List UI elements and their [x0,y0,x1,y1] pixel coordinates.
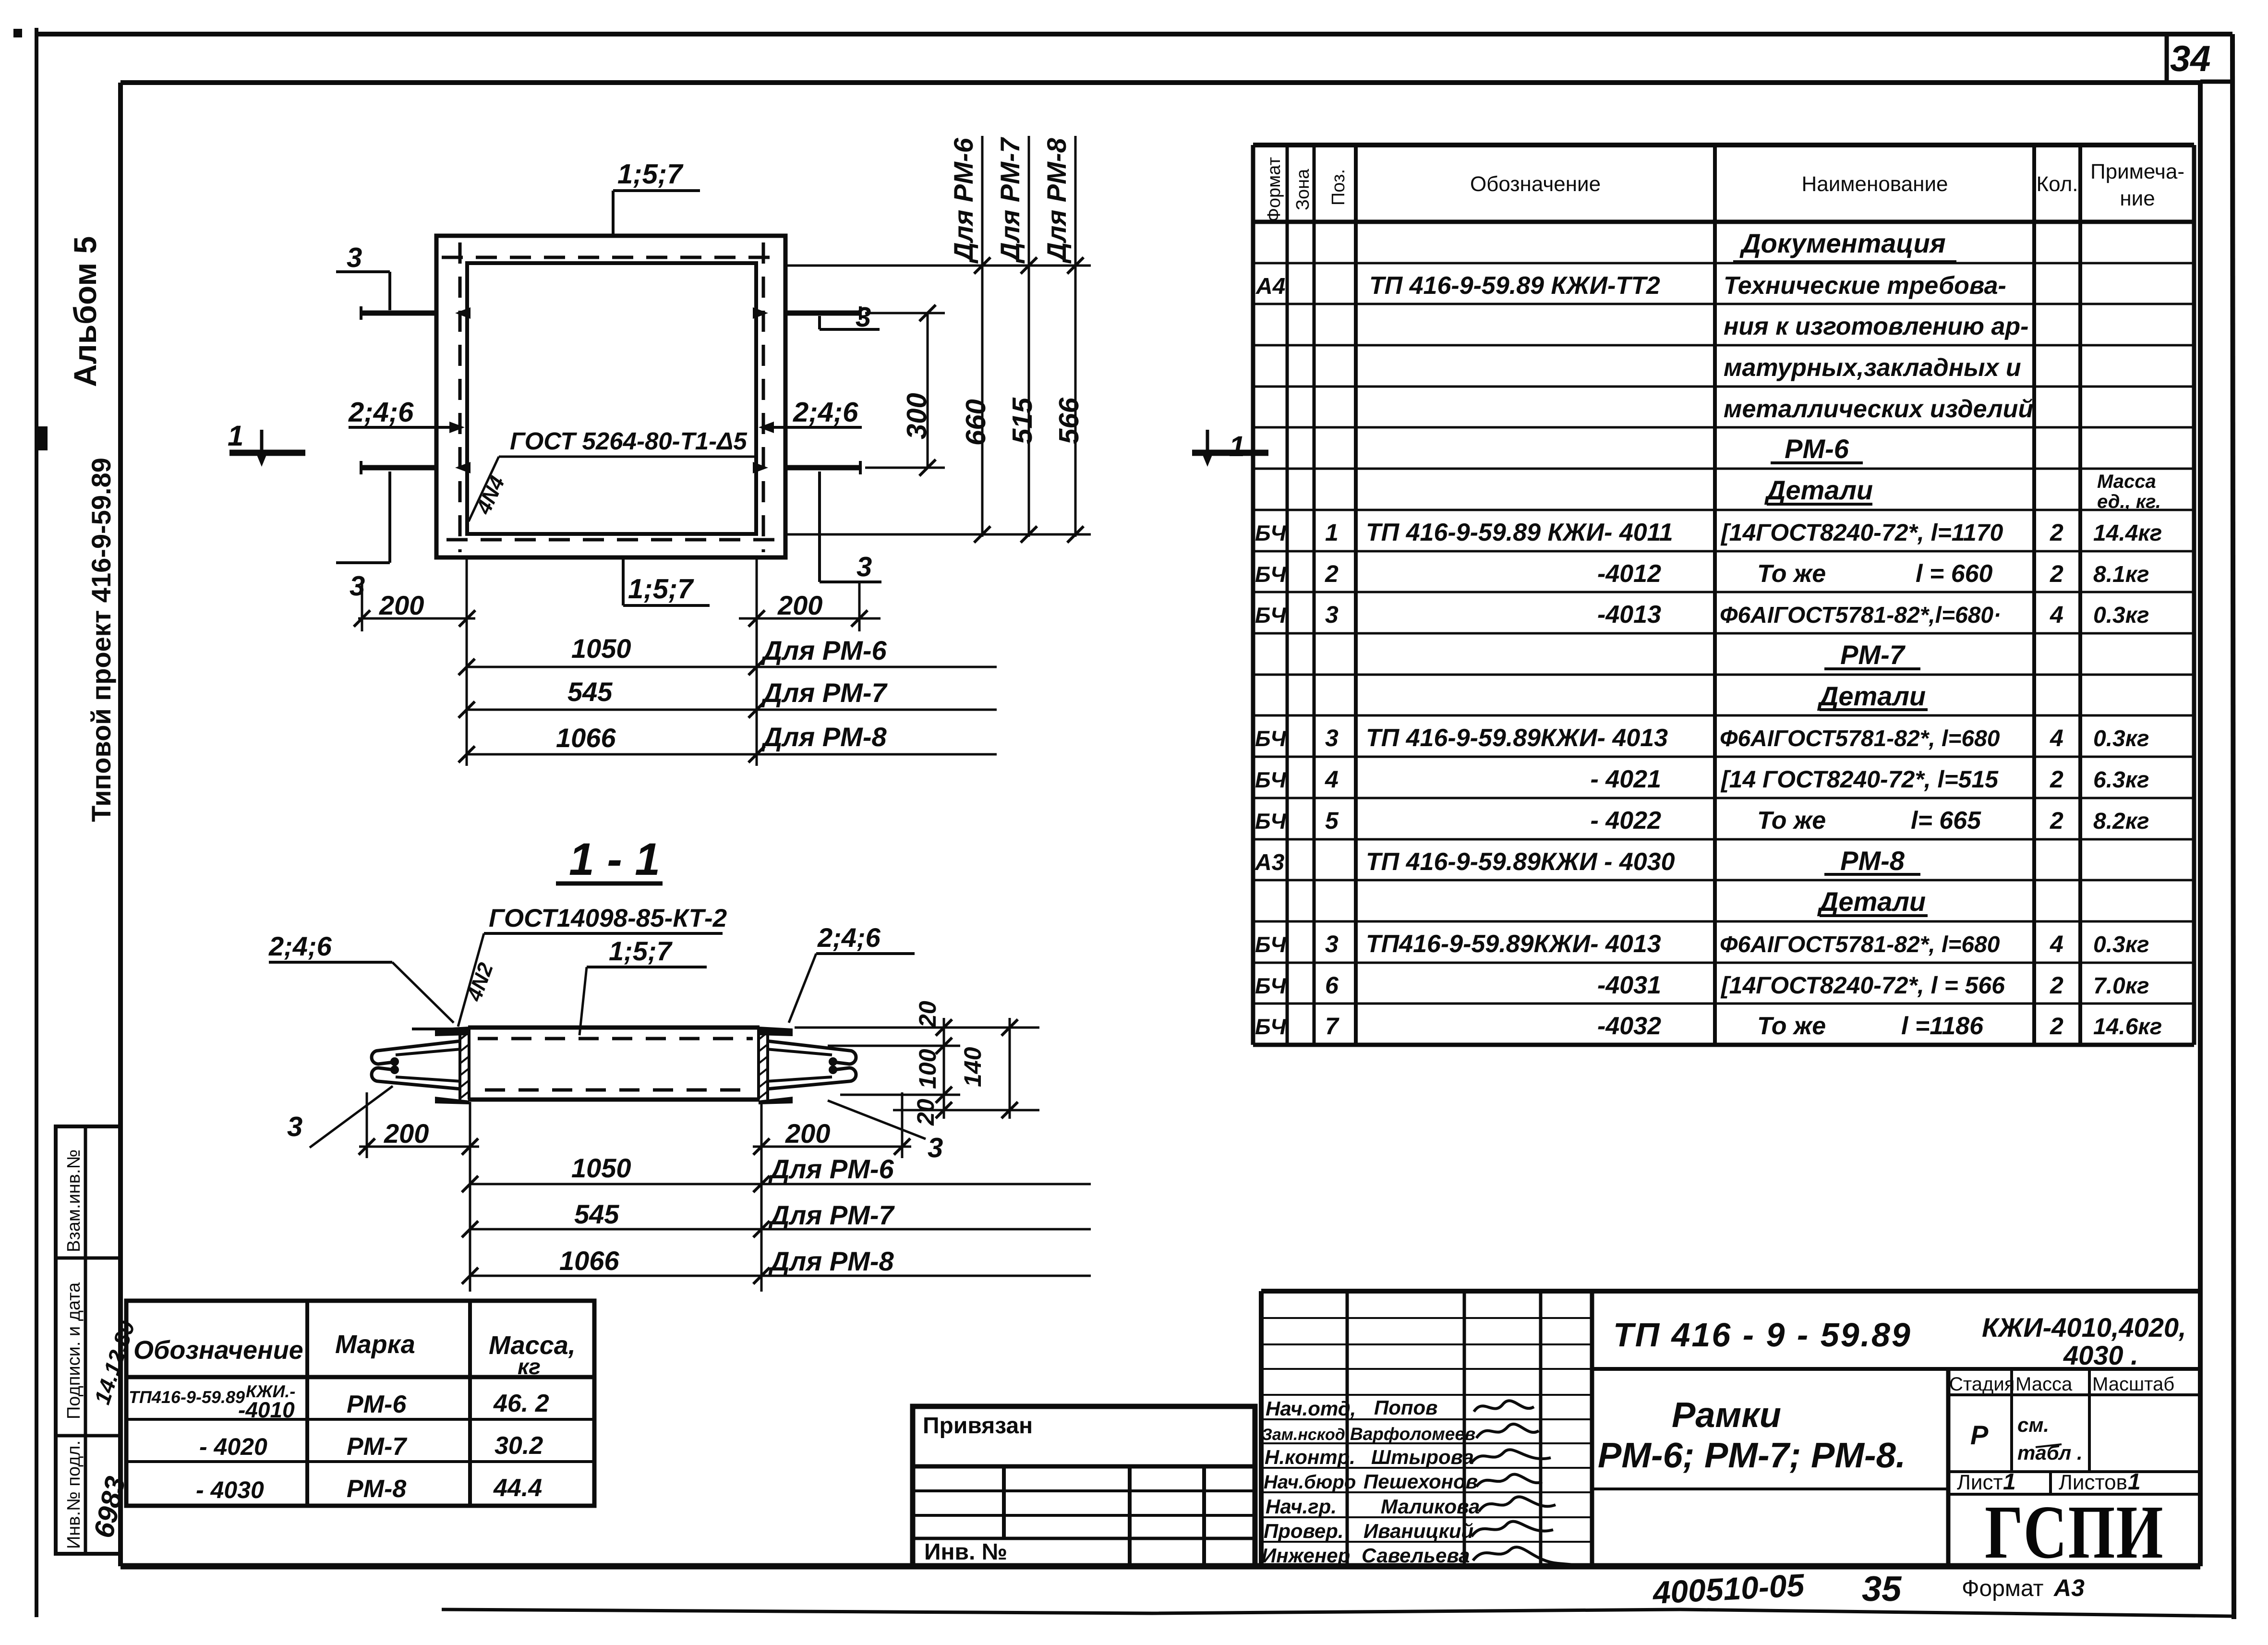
svg-text:6.3кг: 6.3кг [2093,767,2149,793]
svg-text:4N2: 4N2 [462,959,498,1004]
svg-text:2;4;6: 2;4;6 [793,397,858,428]
svg-text:ГОСТ14098-85-КТ-2: ГОСТ14098-85-КТ-2 [489,904,727,932]
svg-text:металлических изделий: металлических изделий [1724,395,2033,423]
svg-text:30.2: 30.2 [495,1432,543,1460]
svg-text:7.0кг: 7.0кг [2093,973,2149,999]
svg-text:200: 200 [379,590,424,620]
svg-text:3: 3 [1325,725,1339,751]
svg-text:-4010: -4010 [238,1397,295,1422]
svg-text:- 4030: - 4030 [196,1476,264,1503]
svg-text:- 4021: - 4021 [1591,765,1661,793]
svg-text:Обозначение: Обозначение [133,1336,303,1365]
svg-text:Подписи. и дата: Подписи. и дата [64,1282,84,1419]
svg-text:2: 2 [2050,1013,2063,1040]
svg-text:А3: А3 [1255,850,1285,875]
svg-text:Альбом 5: Альбом 5 [67,236,103,387]
svg-text:Для РМ-8: Для РМ-8 [768,1246,894,1276]
svg-text:Нач.гр.: Нач.гр. [1266,1495,1337,1518]
svg-text:Ф6АIГОСТ5781-82*, l=680: Ф6АIГОСТ5781-82*, l=680 [1720,726,2000,751]
svg-text:Формат: Формат [1264,157,1284,222]
svg-text:Для РМ-7: Для РМ-7 [761,677,888,708]
svg-text:ед., кг.: ед., кг. [2097,491,2161,512]
svg-text:1;5;7: 1;5;7 [617,158,684,190]
svg-text:ние: ние [2120,187,2155,210]
svg-text:РМ-6: РМ-6 [1785,434,1849,464]
svg-text:РМ-6: РМ-6 [347,1391,407,1418]
svg-text:Инв.№ подл.: Инв.№ подл. [64,1440,84,1549]
svg-text:1;5;7: 1;5;7 [628,573,694,605]
svg-text:ТП416-9-59.89КЖИ- 4013: ТП416-9-59.89КЖИ- 4013 [1366,930,1661,958]
svg-text:Документация: Документация [1739,228,1946,258]
svg-text:8.2кг: 8.2кг [2093,809,2149,834]
svg-text:14.6кг: 14.6кг [2093,1014,2162,1040]
svg-text:Детали: Детали [1817,886,1926,917]
svg-text:1066: 1066 [559,1246,619,1276]
svg-text:1050: 1050 [571,633,631,664]
svg-text:7: 7 [1325,1013,1339,1040]
svg-text:4N4: 4N4 [471,472,509,518]
svg-text:Провер.: Провер. [1264,1520,1344,1542]
svg-text:20: 20 [914,1001,941,1028]
svg-text:БЧ: БЧ [1255,726,1287,751]
svg-text:Ф6АIГОСТ5781-82*,l=680·: Ф6АIГОСТ5781-82*,l=680· [1720,603,2001,628]
svg-text:Пешехонов: Пешехонов [1363,1470,1478,1493]
svg-text:3: 3 [1325,931,1339,957]
svg-text:- 4020: - 4020 [199,1433,267,1460]
svg-text:ГОСТ 5264-80-Т1-Δ5: ГОСТ 5264-80-Т1-Δ5 [510,427,747,455]
svg-text:Масштаб: Масштаб [2092,1374,2174,1395]
svg-text:кг: кг [518,1354,541,1379]
svg-text:2: 2 [2050,972,2063,999]
svg-text:0.3кг: 0.3кг [2093,726,2149,751]
svg-text:БЧ: БЧ [1255,767,1287,792]
svg-text:515: 515 [1007,397,1038,444]
svg-text:3: 3 [857,551,872,582]
svg-text:[14ГОСТ8240-72*, l=1170: [14ГОСТ8240-72*, l=1170 [1720,519,2003,546]
svg-text:А4: А4 [1255,274,1285,299]
svg-text:РМ-6; РМ-7; РМ-8.: РМ-6; РМ-7; РМ-8. [1598,1435,1906,1475]
svg-text:БЧ: БЧ [1255,1014,1287,1039]
svg-text:300: 300 [901,393,932,439]
svg-text:2;4;6: 2;4;6 [817,922,881,953]
svg-text:То же: То же [1757,1012,1826,1040]
svg-text:[14 ГОСТ8240-72*, l=515: [14 ГОСТ8240-72*, l=515 [1720,766,1999,793]
svg-text:Для РМ-7: Для РМ-7 [768,1200,895,1230]
svg-text:Н.контр.: Н.контр. [1265,1446,1355,1468]
svg-text:1 - 1: 1 - 1 [569,834,660,885]
svg-text:3: 3 [928,1132,943,1163]
svg-text:5: 5 [1325,807,1339,834]
svg-text:Для РМ-6: Для РМ-6 [768,1154,894,1184]
svg-text:матурных,закладных и: матурных,закладных и [1724,354,2021,382]
svg-text:Савельева: Савельева [1362,1544,1470,1567]
svg-text:РМ-7: РМ-7 [1840,640,1906,670]
svg-text:-4013: -4013 [1597,601,1661,629]
svg-text:6: 6 [1325,972,1339,999]
svg-text:БЧ: БЧ [1255,809,1287,834]
svg-text:44.4: 44.4 [493,1474,542,1502]
svg-text:545: 545 [567,677,613,707]
svg-text:545: 545 [574,1199,619,1229]
svg-text:1: 1 [1229,430,1245,462]
svg-text:Кол.: Кол. [2036,172,2078,196]
svg-text:Для РМ-8: Для РМ-8 [1041,138,1072,264]
svg-text:РМ-8: РМ-8 [347,1475,406,1503]
svg-text:РМ-7: РМ-7 [347,1433,407,1461]
svg-text:4: 4 [2050,601,2063,628]
svg-text:1066: 1066 [556,723,616,753]
svg-text:РМ-8: РМ-8 [1840,846,1905,876]
svg-text:200: 200 [384,1118,429,1149]
svg-text:1: 1 [1325,519,1339,546]
svg-text:Взам.инв.№: Взам.инв.№ [64,1149,84,1252]
svg-text:l = 660: l = 660 [1916,560,1993,588]
svg-text:Масса: Масса [2015,1374,2073,1395]
svg-text:То же: То же [1757,807,1826,835]
svg-text:2: 2 [2050,766,2063,793]
svg-text:14.4кг: 14.4кг [2093,520,2162,546]
svg-text:- 4022: - 4022 [1591,807,1662,835]
svg-text:БЧ: БЧ [1255,562,1287,587]
svg-text:Наименование: Наименование [1801,172,1948,196]
svg-text:0.3кг: 0.3кг [2093,603,2149,628]
svg-text:ния к изготовлению ар-: ния к изготовлению ар- [1724,313,2028,340]
svg-text:Нач.отд,: Нач.отд, [1266,1397,1356,1420]
svg-text:БЧ: БЧ [1255,520,1287,545]
svg-text:Для РМ-6: Для РМ-6 [761,635,887,665]
svg-text:Детали: Детали [1764,475,1873,505]
svg-text:КЖИ-4010,4020,: КЖИ-4010,4020, [1982,1312,2186,1343]
svg-text:2: 2 [2050,519,2063,546]
svg-text:2: 2 [2050,807,2063,834]
svg-text:8.1кг: 8.1кг [2093,562,2149,587]
svg-text:2;4;6: 2;4;6 [348,397,414,428]
svg-text:Штырова: Штырова [1371,1446,1474,1468]
svg-text:200: 200 [777,590,822,620]
svg-text:см.: см. [2017,1414,2049,1436]
svg-text:БЧ: БЧ [1255,932,1287,957]
svg-text:l =1186: l =1186 [1901,1012,1984,1040]
svg-text:БЧ: БЧ [1255,973,1287,998]
svg-text:4: 4 [1325,766,1339,793]
svg-text:Рамки: Рамки [1672,1395,1781,1435]
svg-text:Иваницкий: Иваницкий [1363,1520,1473,1542]
svg-text:2: 2 [2050,560,2063,587]
svg-text:l= 665: l= 665 [1911,807,1981,835]
svg-text:Примеча-: Примеча- [2090,160,2184,183]
svg-text:Типовой проект 416-9-59.89: Типовой проект 416-9-59.89 [86,458,116,822]
svg-text:Для РМ-6: Для РМ-6 [948,138,978,264]
svg-text:566: 566 [1053,397,1085,444]
svg-text:Инв. №: Инв. № [924,1539,1007,1565]
svg-text:Поз.: Поз. [1328,169,1349,206]
svg-text:ТП 416-9-59.89КЖИ - 4030: ТП 416-9-59.89КЖИ - 4030 [1366,848,1675,876]
svg-text:-4032: -4032 [1597,1012,1661,1040]
svg-text:2;4;6: 2;4;6 [268,931,332,961]
svg-text:ГСПИ: ГСПИ [1985,1490,2164,1574]
svg-text:Стадия: Стадия [1949,1374,2015,1395]
svg-text:Технические требова-: Технические требова- [1724,272,2006,300]
svg-text:400510-05: 400510-05 [1651,1567,1806,1610]
svg-text:Зам.нскод: Зам.нскод [1262,1426,1345,1444]
svg-text:Попов: Попов [1374,1396,1438,1419]
svg-text:3: 3 [1325,601,1339,628]
svg-text:660: 660 [960,399,991,446]
svg-text:Марка: Марка [335,1330,415,1359]
svg-text:Инженер: Инженер [1262,1544,1350,1567]
svg-text:1;5;7: 1;5;7 [609,936,673,966]
svg-text:Варфоломеев: Варфоломеев [1350,1424,1475,1444]
svg-text:3: 3 [287,1111,302,1142]
svg-text:2: 2 [1325,560,1339,587]
svg-text:ТП 416-9-59.89 КЖИ-ТТ2: ТП 416-9-59.89 КЖИ-ТТ2 [1369,272,1660,300]
svg-text:Детали: Детали [1817,681,1926,711]
svg-text:140: 140 [959,1047,986,1087]
svg-text:Для РМ-7: Для РМ-7 [995,137,1025,264]
svg-text:4030 .: 4030 . [2063,1340,2138,1370]
svg-text:Формат: Формат [1962,1576,2044,1601]
svg-text:ТП 416 - 9 - 59.89: ТП 416 - 9 - 59.89 [1613,1316,1912,1354]
svg-text:4: 4 [2050,725,2063,751]
svg-text:3: 3 [347,242,362,273]
svg-text:1050: 1050 [571,1153,631,1183]
svg-text:0.3кг: 0.3кг [2093,932,2149,957]
svg-text:1: 1 [228,420,243,452]
svg-text:Нач.бюро: Нач.бюро [1264,1472,1356,1493]
svg-text:-4012: -4012 [1597,560,1661,588]
svg-text:ТП 416-9-59.89 КЖИ- 4011: ТП 416-9-59.89 КЖИ- 4011 [1366,519,1673,546]
svg-text:То же: То же [1757,560,1826,588]
svg-text:БЧ: БЧ [1255,603,1287,628]
svg-text:ТП 416-9-59.89КЖИ- 4013: ТП 416-9-59.89КЖИ- 4013 [1366,724,1668,752]
svg-text:ТП416-9-59.89: ТП416-9-59.89 [129,1387,245,1407]
svg-text:100: 100 [914,1049,941,1089]
svg-text:Ф6АIГОСТ5781-82*, l=680: Ф6АIГОСТ5781-82*, l=680 [1720,932,2000,957]
svg-text:Привязан: Привязан [923,1413,1033,1439]
svg-text:4: 4 [2050,931,2063,957]
svg-text:А3: А3 [2053,1574,2085,1601]
svg-text:Для РМ-8: Для РМ-8 [761,722,887,752]
svg-text:200: 200 [785,1118,830,1149]
svg-text:35: 35 [1862,1569,1902,1609]
svg-text:Масса: Масса [2097,471,2156,492]
svg-text:[14ГОСТ8240-72*, l = 566: [14ГОСТ8240-72*, l = 566 [1720,972,2005,999]
svg-text:Р: Р [1970,1420,1989,1450]
svg-text:Обозначение: Обозначение [1470,172,1601,196]
svg-text:-4031: -4031 [1597,971,1661,999]
svg-text:Маликова: Маликова [1381,1495,1480,1518]
svg-text:46. 2: 46. 2 [493,1390,549,1417]
svg-text:20: 20 [912,1099,939,1126]
svg-text:Зона: Зона [1293,169,1313,210]
svg-text:34: 34 [2170,38,2211,79]
